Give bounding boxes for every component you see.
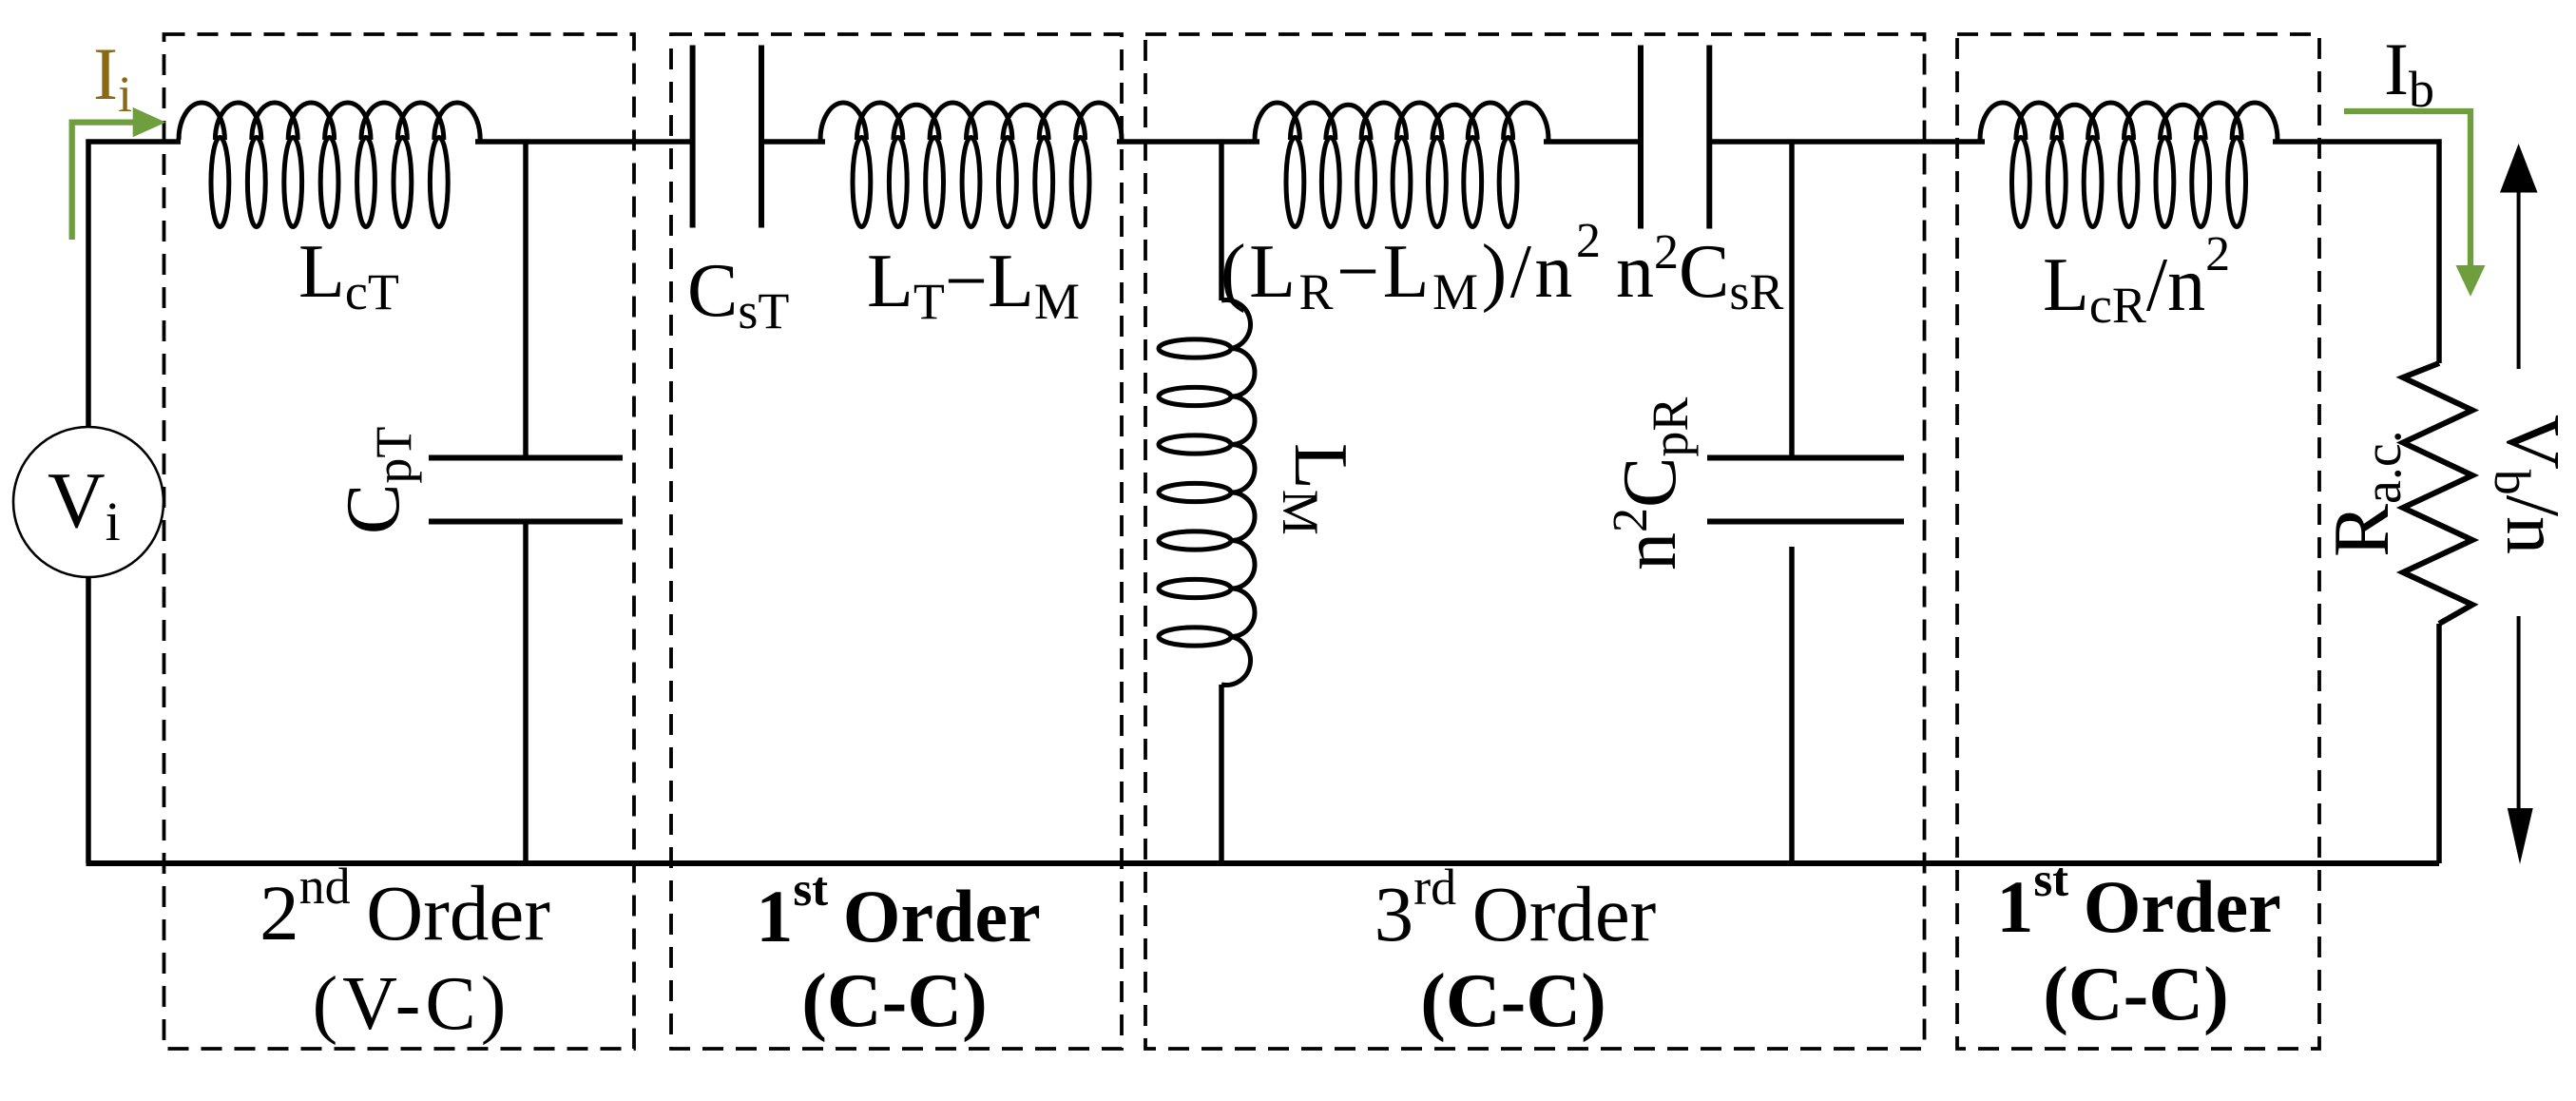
dashed box: 2nd Order (V-C) section (164, 34, 635, 1049)
wire: CpT branch top (523, 142, 529, 458)
wire: LM branch bottom (1219, 685, 1224, 863)
wire: left vertical from top wire to Vi source (88, 142, 181, 428)
wire: resistor bottom to bottom rail (2436, 624, 2442, 863)
resistor Rac (2403, 363, 2472, 624)
svg-text:(V-C): (V-C) (313, 962, 511, 1046)
wire: CpT branch bottom (523, 521, 529, 863)
svg-text:(C-C): (C-C) (1420, 959, 1605, 1043)
inductor LcR/n2 (1980, 103, 2278, 227)
inductor LcT (179, 103, 480, 227)
svg-text:(LR−LM)/n2: (LR−LM)/n2 (1221, 214, 1604, 320)
current arrow Ii (green) (72, 123, 133, 240)
capacitor CpT (429, 458, 623, 522)
wire: (LR-LM)/n2 to n2CsR left plate (1544, 139, 1641, 145)
wire: CsT right plate to LT-LM (761, 139, 825, 145)
dashed box: 1st Order (C-C) section (1957, 34, 2319, 1049)
wire: LcR/n2 to output node, down to resistor (2273, 142, 2439, 363)
wire: LcT to CsT left plate (475, 139, 692, 145)
svg-text:(C-C): (C-C) (801, 959, 987, 1043)
voltage arrow Vb/n up (2500, 144, 2538, 193)
dashed box: 3rd Order (C-C) section (1145, 34, 1925, 1049)
voltage arrow Vb/n down (2517, 616, 2521, 810)
wire: LT-LM to (LR-LM)/n2 with LM junction (1117, 139, 1259, 145)
wire: LM branch top (1219, 142, 1224, 300)
voltage source Vi (13, 427, 163, 577)
current arrow Ib (green) (2344, 111, 2470, 266)
inductor LM (1159, 299, 1255, 685)
svg-text:(C-C): (C-C) (2043, 953, 2228, 1036)
wire: n2CpR branch bottom (1789, 547, 1795, 863)
wire: n2CpR branch top (1789, 142, 1795, 458)
capacitor n2CsR (1641, 46, 1709, 229)
inductor (LR-LM)/n2 (1255, 103, 1548, 227)
wire: Vi source bottom to bottom rail (86, 576, 91, 863)
capacitor CsT (693, 46, 761, 228)
wire: n2CsR right plate to LcR/n2 with n2CpR junction (1709, 139, 1985, 145)
inductor LT-LM (820, 103, 1122, 227)
dashed box: 1st Order (C-C) section (671, 34, 1122, 1049)
wire: bottom rail (87, 860, 2440, 866)
capacitor n2CpR (1707, 458, 1904, 522)
